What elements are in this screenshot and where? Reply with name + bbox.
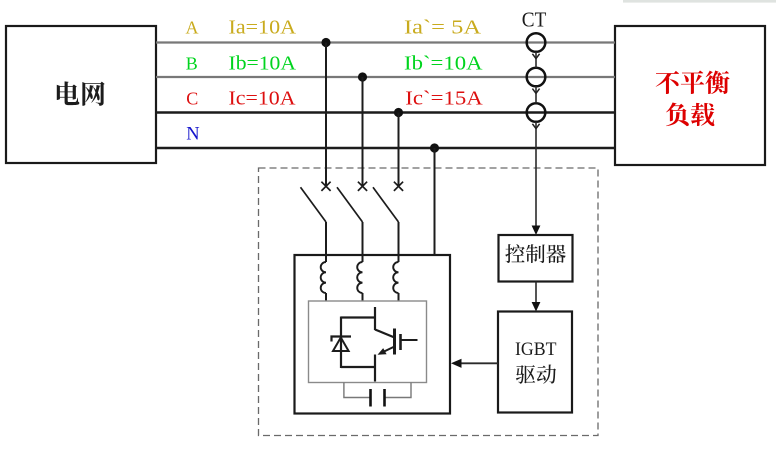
capacitor left plate <box>369 389 372 407</box>
node tap B <box>358 72 367 81</box>
dashed compensator enclosure <box>259 168 599 436</box>
wire phase A <box>156 41 615 43</box>
breaker switch A <box>301 182 331 222</box>
CT secondary wire segment 2 <box>535 86 537 103</box>
breaker switch C <box>373 182 403 222</box>
label 负载 (load) <box>666 103 714 127</box>
inductor coil C <box>393 262 398 293</box>
wire phase B <box>156 76 615 78</box>
svg-text:Ib`=10A: Ib`=10A <box>404 54 483 75</box>
inverter outer box <box>295 255 451 414</box>
wire tap B down to switch <box>362 77 364 188</box>
CT secondary arrow tick <box>532 124 539 129</box>
freewheel loop bottom wire <box>341 366 375 368</box>
label 控制器 (controller) <box>505 244 565 263</box>
CT circle 2 <box>527 68 546 87</box>
svg-text:B: B <box>186 54 198 74</box>
CT circle 3 <box>527 103 546 122</box>
label 驱动 (drive) <box>516 365 556 384</box>
dc-link capacitor right wire <box>385 383 412 398</box>
wire tap C down to switch <box>398 113 400 188</box>
wire tap N down to inverter box <box>434 148 436 256</box>
label 电网 (power grid) <box>57 81 105 105</box>
unbalanced load box <box>615 26 765 165</box>
inductor coil B <box>357 262 362 293</box>
svg-text:IGBT: IGBT <box>515 339 557 360</box>
capacitor right plate <box>383 389 386 407</box>
wire switch B to inductor <box>362 222 364 262</box>
CT secondary wire segment 3 <box>535 122 537 227</box>
arrowhead into controller <box>532 226 541 236</box>
svg-text:Ia=10A: Ia=10A <box>229 18 297 39</box>
inductor coil A <box>321 262 326 293</box>
IGBT collector wire <box>374 307 376 330</box>
IGBT module inner box <box>309 301 427 383</box>
CT secondary arrow tick <box>532 54 539 59</box>
IGBT emitter wire <box>374 355 376 382</box>
top-right grey bar <box>623 0 776 3</box>
svg-text:C: C <box>186 89 198 109</box>
wire inductor C to bridge <box>398 293 400 301</box>
wire neutral N <box>156 147 615 149</box>
svg-text:Ic=10A: Ic=10A <box>229 89 296 110</box>
svg-text:Ia`= 5A: Ia`= 5A <box>404 18 481 39</box>
CT secondary wire segment 1 <box>535 52 537 68</box>
node tap A <box>321 38 330 47</box>
IGBT main bar <box>393 329 396 355</box>
IGBT drive box <box>498 312 572 413</box>
wire phase C <box>156 111 615 113</box>
wire inductor B to bridge <box>362 293 364 301</box>
power grid box <box>6 26 156 163</box>
breaker switch B <box>337 182 367 222</box>
arrowhead into inverter <box>451 359 462 368</box>
svg-text:CT: CT <box>522 8 547 32</box>
freewheel loop left wire <box>340 317 342 369</box>
wire tap A down to switch <box>325 43 327 188</box>
IGBT gate bar <box>399 334 402 350</box>
IGBT gate wire <box>401 339 418 341</box>
wire inductor A to bridge <box>325 293 327 301</box>
diode D1 cathode bar <box>332 337 352 342</box>
IGBT collector diagonal <box>375 330 395 338</box>
CT circle 1 <box>527 33 546 52</box>
label 不平衡 (unbalanced) <box>656 71 730 94</box>
freewheel loop top wire <box>341 316 375 318</box>
svg-text:Ic`=15A: Ic`=15A <box>405 89 483 110</box>
CT secondary arrow tick <box>532 89 539 94</box>
wire IGBT drive to inverter <box>461 362 498 364</box>
diode D1 triangle <box>333 338 349 352</box>
wire switch A to inductor <box>325 222 327 262</box>
node tap C <box>394 108 403 117</box>
wire switch C to inductor <box>398 222 400 262</box>
wire controller to IGBT drive <box>535 282 537 304</box>
controller box <box>499 235 573 282</box>
dc-link capacitor left wire <box>344 383 371 398</box>
node tap N <box>430 143 439 152</box>
svg-text:A: A <box>186 18 199 38</box>
arrowhead into IGBT drive <box>532 302 541 312</box>
IGBT emitter arrow <box>381 347 395 354</box>
svg-text:N: N <box>186 125 199 145</box>
svg-text:Ib=10A: Ib=10A <box>229 54 297 75</box>
